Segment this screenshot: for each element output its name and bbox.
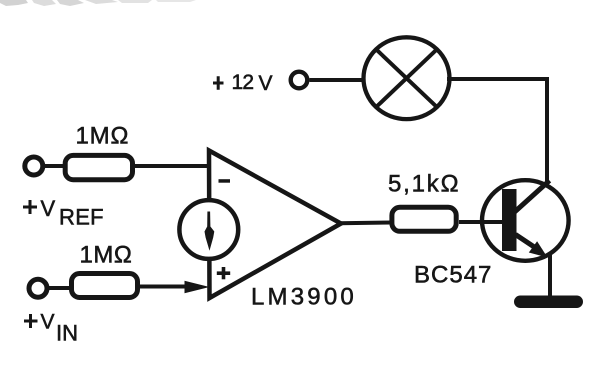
wire: lamp to transistor collector (corner top-right) bbox=[447, 79, 547, 182]
svg-text:1MΩ: 1MΩ bbox=[76, 123, 130, 150]
resistor R2 1MΩ bbox=[72, 274, 138, 298]
label +VIN bbox=[24, 311, 78, 346]
svg-text:5,1kΩ: 5,1kΩ bbox=[388, 171, 460, 198]
op-amp U1 LM3900 triangle bbox=[209, 151, 341, 299]
label Q1 BC547 bbox=[414, 262, 492, 289]
svg-text:V: V bbox=[41, 311, 55, 334]
terminal +VREF bbox=[25, 157, 43, 175]
wire: +12V terminal to lamp bbox=[310, 78, 364, 82]
resistor R1 1MΩ bbox=[65, 155, 132, 179]
svg-text:REF: REF bbox=[59, 205, 104, 230]
label minus (inverting input) bbox=[219, 179, 231, 183]
wire with arrow: R2 to op-amp non-inverting input bbox=[140, 281, 210, 294]
label +12V bbox=[213, 71, 273, 95]
svg-text:LM3900: LM3900 bbox=[251, 284, 357, 311]
wire: op-amp output to R3 bbox=[339, 221, 392, 226]
label R1 1MΩ bbox=[76, 123, 130, 150]
label R2 1MΩ bbox=[80, 242, 133, 269]
resistor R3 5,1kΩ bbox=[392, 207, 456, 231]
wire: +VREF terminal to R1 bbox=[45, 164, 64, 168]
svg-text:V: V bbox=[259, 72, 273, 95]
svg-text:BC547: BC547 bbox=[414, 262, 492, 289]
lamp L1 (circle with X) bbox=[364, 37, 450, 119]
label +VREF bbox=[23, 196, 104, 230]
svg-text:V: V bbox=[41, 196, 56, 221]
transistor Q1 BC547 bbox=[482, 180, 569, 261]
svg-text:IN: IN bbox=[56, 321, 78, 346]
ground bbox=[514, 296, 583, 309]
label R3 5,1kΩ bbox=[388, 171, 460, 198]
wire: R1 to op-amp inverting input bbox=[135, 164, 209, 168]
terminal +12V bbox=[291, 72, 308, 89]
svg-text:12: 12 bbox=[232, 71, 254, 94]
current source symbol inside U1 bbox=[179, 200, 238, 259]
label U1 LM3900 bbox=[251, 284, 357, 311]
svg-text:1MΩ: 1MΩ bbox=[80, 242, 133, 269]
terminal +VIN bbox=[29, 279, 47, 297]
wire: Q1 emitter to ground bbox=[548, 255, 552, 298]
label plus (non-inverting input) bbox=[217, 267, 230, 279]
wire: R3 to Q1 base bbox=[459, 220, 503, 224]
scan smudge along top edge bbox=[0, 0, 196, 6]
wire: +VIN terminal to R2 bbox=[48, 286, 70, 290]
